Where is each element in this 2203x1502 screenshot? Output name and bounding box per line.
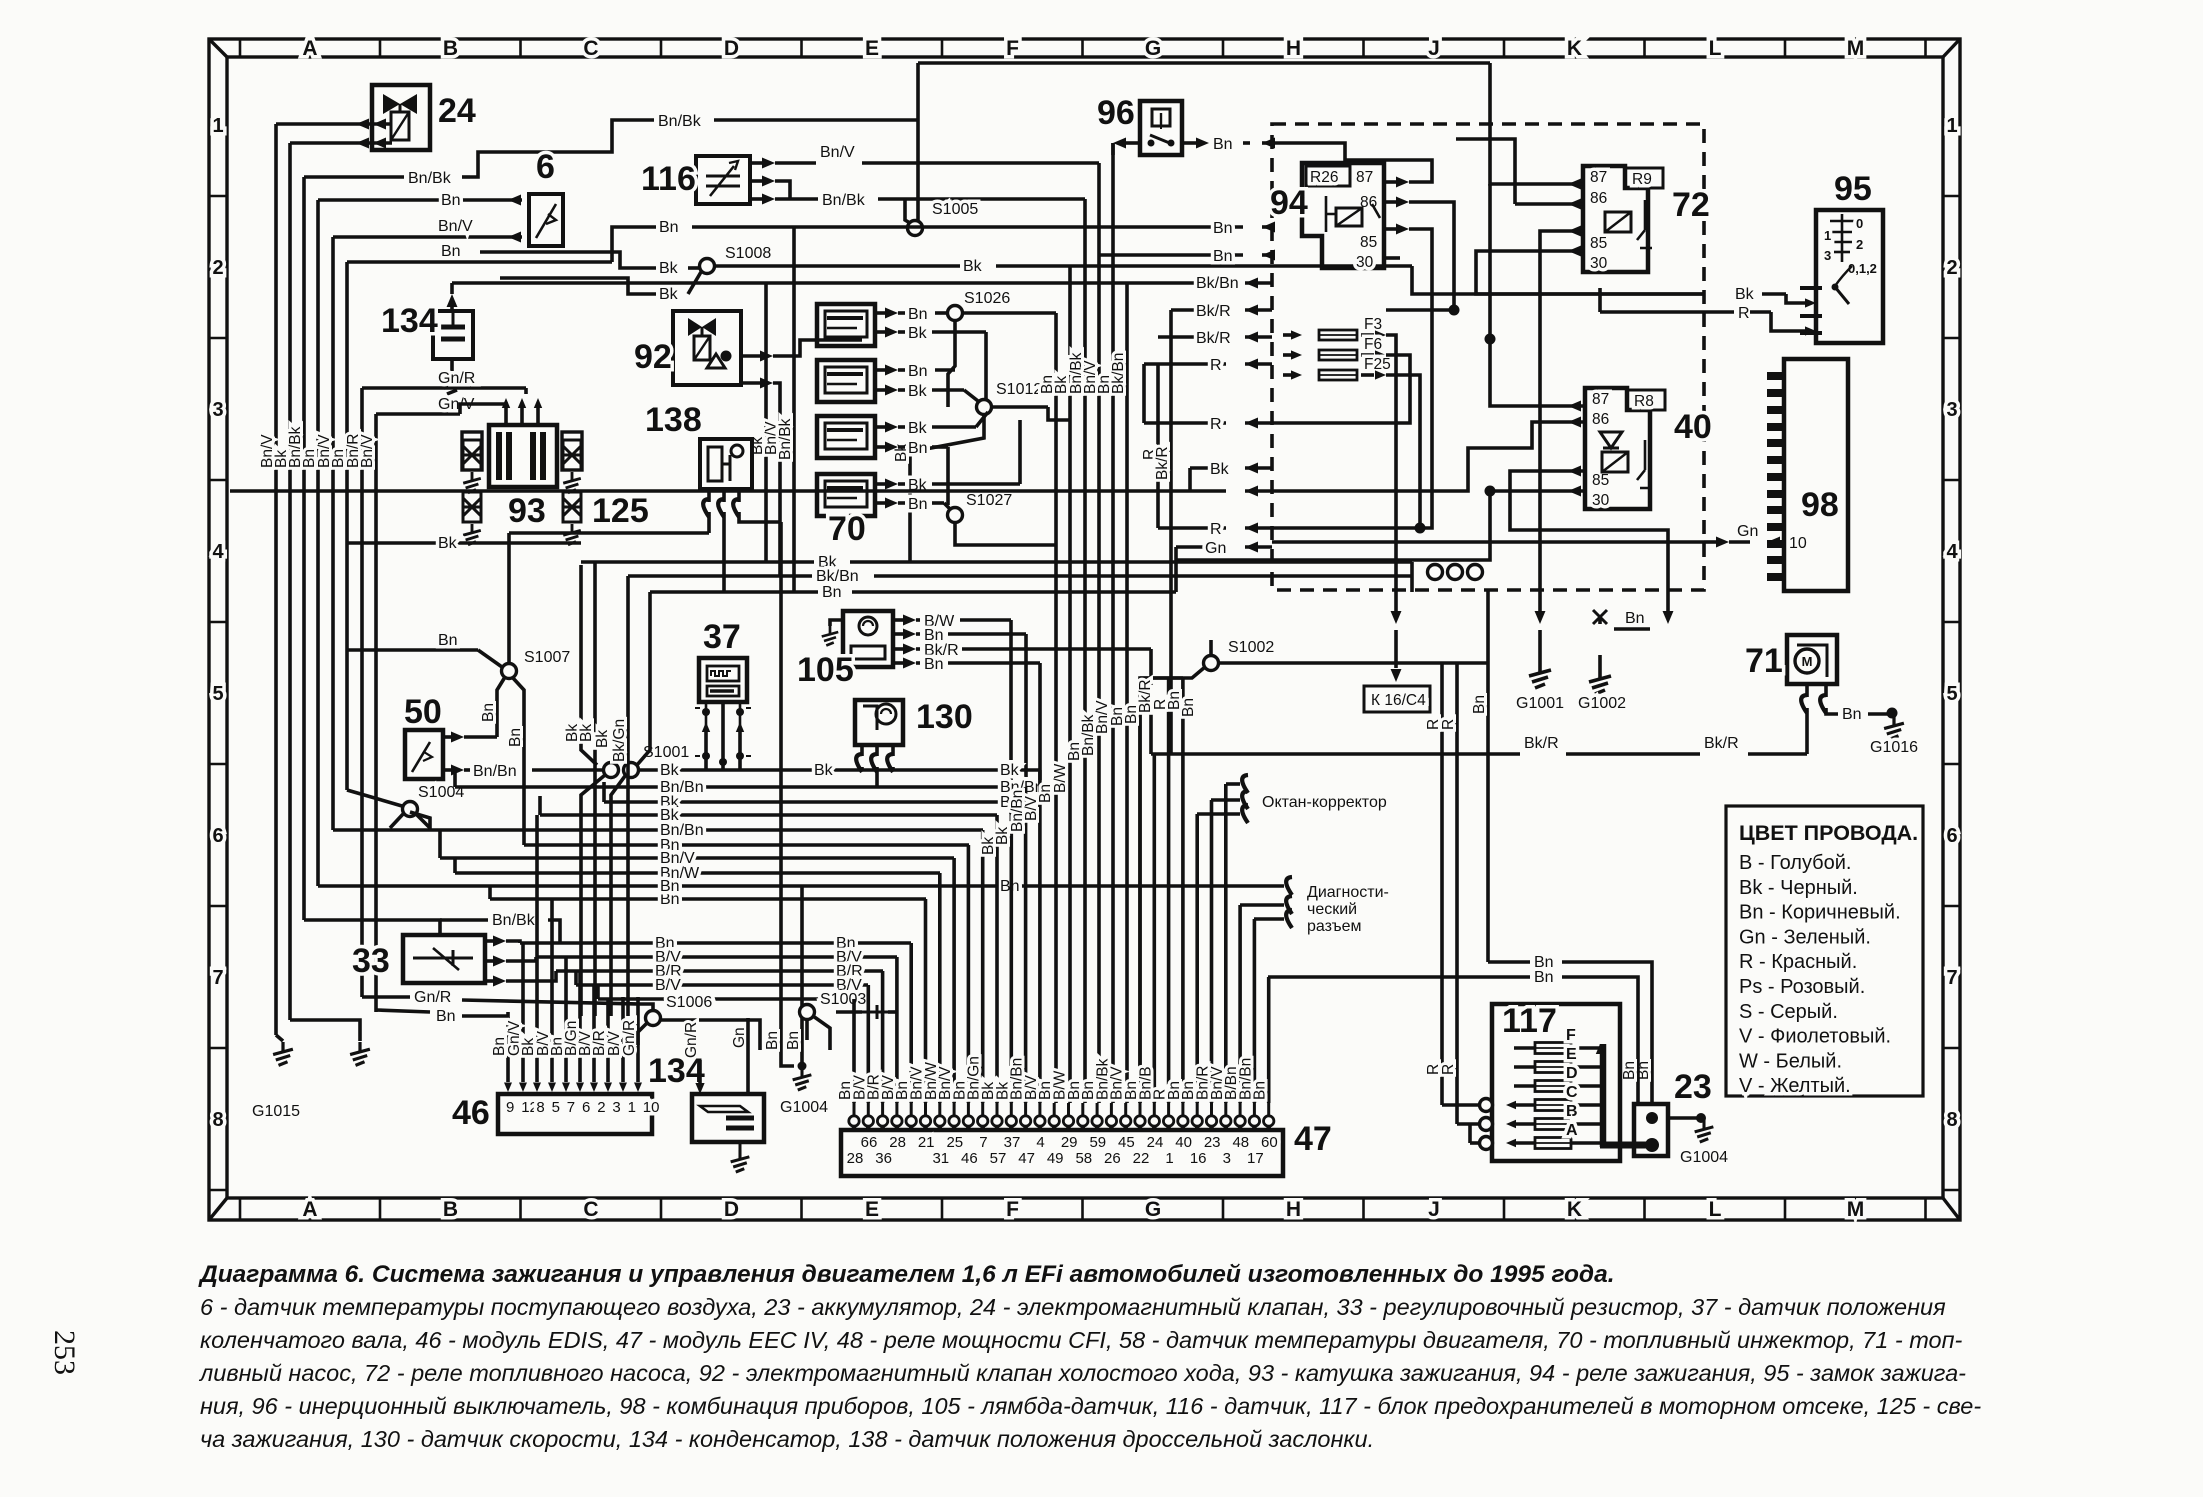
splice S1002: [1204, 656, 1219, 671]
central bus wire BnV to pin17: [1097, 163, 1101, 1103]
wire Bk below S1008: [500, 278, 656, 294]
splice S1027: [944, 503, 950, 509]
46 pin arrow heads: [504, 1083, 512, 1093]
relay box exit arrow right: [1663, 611, 1674, 624]
diagnostic connector wires: [1240, 903, 1284, 907]
svg-text:Bk - Черный.: Bk - Черный.: [1739, 877, 1858, 899]
wire Bk to splice S1008: [480, 252, 656, 268]
svg-text:85: 85: [1360, 234, 1377, 251]
svg-text:R26: R26: [1310, 169, 1338, 186]
svg-text:117: 117: [1502, 1002, 1557, 1040]
svg-text:Gn - Зеленый.: Gn - Зеленый.: [1739, 926, 1871, 948]
S1001 branch wires up: [581, 565, 597, 765]
wire Bn row into relay box: [1113, 225, 1243, 229]
svg-text:S1008: S1008: [725, 245, 771, 262]
svg-text:125: 125: [592, 492, 649, 530]
svg-text:37: 37: [1004, 1134, 1021, 1151]
svg-text:R: R: [1738, 305, 1750, 322]
svg-text:Gn/R: Gn/R: [621, 1020, 638, 1056]
ground under capacitor 134 lower: [731, 1150, 750, 1172]
svg-text:M: M: [1847, 37, 1865, 60]
wire Bn/Bk branch right: [440, 918, 488, 922]
long wire row at y491: [230, 489, 1226, 493]
svg-text:30: 30: [1590, 255, 1608, 272]
vertical wire R2 to fusebox 117: [1455, 663, 1459, 1124]
svg-text:R: R: [1210, 416, 1222, 433]
svg-text:D: D: [1566, 1065, 1578, 1082]
svg-text:Bk/Bn: Bk/Bn: [1110, 353, 1127, 394]
svg-text:Bk/R: Bk/R: [1196, 303, 1231, 320]
svg-text:6: 6: [536, 148, 555, 186]
svg-text:30: 30: [1356, 254, 1374, 271]
svg-text:ния, 96 - инерционный выключат: ния, 96 - инерционный выключатель, 98 - …: [200, 1393, 1981, 1419]
svg-text:R - Красный.: R - Красный.: [1739, 951, 1857, 973]
svg-text:45: 45: [1118, 1134, 1135, 1151]
svg-text:7: 7: [979, 1134, 987, 1151]
sensor 116 box: [696, 156, 750, 204]
svg-text:E: E: [1566, 1046, 1577, 1063]
relay box internal wiring: [1176, 63, 1704, 612]
svg-text:Bn: Bn: [1252, 1081, 1269, 1100]
svg-text:3: 3: [1946, 399, 1957, 421]
wire R row at y423: [1144, 421, 1226, 425]
thick wire fuse A to battery: [1600, 1142, 1652, 1149]
row Bn y977 from pin29 to battery: [1268, 975, 1530, 979]
svg-text:R9: R9: [1632, 171, 1652, 188]
svg-text:Bn: Bn: [1842, 706, 1862, 723]
svg-text:F25: F25: [1364, 356, 1391, 373]
splice S1004: [403, 802, 418, 817]
svg-text:F: F: [1006, 1198, 1019, 1221]
svg-text:D: D: [724, 37, 739, 60]
svg-text:3: 3: [612, 1099, 620, 1116]
svg-text:Bn: Bn: [438, 632, 458, 649]
injector no.2 wire Bk: [875, 388, 886, 392]
svg-text:Gn: Gn: [1205, 540, 1226, 557]
splice S1001: [604, 763, 619, 778]
svg-text:96: 96: [1097, 94, 1135, 132]
svg-text:Ps - Розовый.: Ps - Розовый.: [1739, 976, 1865, 998]
svg-text:23: 23: [1204, 1134, 1221, 1151]
ignition switch 95: [1816, 210, 1883, 343]
ground G1004 left: [793, 1068, 812, 1090]
wire to ground G1002: [1598, 655, 1602, 668]
long diagnostic row Bn: [318, 884, 1284, 888]
svg-text:Bn: Bn: [1213, 220, 1233, 237]
fuel injector 70 no.3: [817, 416, 875, 458]
svg-text:S1005: S1005: [932, 201, 978, 218]
svg-text:7: 7: [1946, 967, 1957, 989]
svg-text:253: 253: [48, 1330, 81, 1375]
svg-text:C: C: [583, 1198, 598, 1221]
svg-text:Bn/V: Bn/V: [438, 218, 473, 235]
svg-text:R: R: [1440, 719, 1457, 730]
idle speed valve 92: [673, 311, 741, 385]
svg-text:Bn: Bn: [785, 1031, 802, 1050]
svg-text:R: R: [1440, 1064, 1457, 1075]
svg-text:Bk: Bk: [594, 730, 611, 748]
wire Bn row y592: [650, 590, 818, 594]
svg-text:49: 49: [1047, 1150, 1064, 1167]
svg-text:R: R: [1210, 357, 1222, 374]
relay box exit arrow to K16C4: [1391, 611, 1402, 624]
pins of 138: [707, 489, 711, 502]
svg-text:Bn: Bn: [908, 440, 928, 457]
svg-text:S1012: S1012: [996, 381, 1042, 398]
wire Bk/R row into relay box (fuse F3): [1171, 308, 1226, 312]
svg-text:Bn: Bn: [908, 496, 928, 513]
svg-text:116: 116: [641, 160, 696, 198]
svg-text:36: 36: [875, 1150, 892, 1167]
diagnostic connector chevrons: [1286, 877, 1292, 895]
wire Bn from pump 71 to ground G1016: [1826, 708, 1838, 714]
svg-text:ливный насос, 72 - реле топлив: ливный насос, 72 - реле топливного насос…: [198, 1360, 1966, 1386]
ground at 105: [830, 620, 843, 626]
wire to second ground: [290, 1020, 360, 1041]
svg-text:86: 86: [1590, 190, 1607, 207]
wire down to connector K16/C4: [1394, 630, 1398, 668]
svg-text:2: 2: [1856, 237, 1863, 252]
junction dots in relay box: [1449, 305, 1460, 316]
ground next to G1015: [350, 1042, 370, 1065]
svg-text:F6: F6: [1364, 336, 1382, 353]
svg-text:Bn/Bk: Bn/Bk: [408, 170, 452, 187]
wire from 92 pin2: [741, 381, 760, 385]
svg-text:66: 66: [861, 1134, 878, 1151]
svg-text:6: 6: [212, 825, 223, 847]
svg-text:S1026: S1026: [964, 290, 1010, 307]
svg-text:F: F: [1006, 37, 1019, 60]
svg-text:93: 93: [508, 492, 546, 530]
svg-text:5: 5: [552, 1099, 560, 1116]
svg-text:F: F: [1566, 1027, 1576, 1044]
117 left connector bubbles: [1480, 1099, 1493, 1112]
svg-text:S1007: S1007: [524, 649, 570, 666]
wire from 92 pin1: [721, 351, 732, 362]
wire from bus to S1004: [347, 790, 402, 806]
vertical wire Bn right: [1486, 590, 1490, 962]
svg-text:Gn/R: Gn/R: [414, 989, 451, 1006]
wire into fuse A: [1470, 1141, 1479, 1145]
svg-text:Bk: Bk: [908, 383, 928, 400]
svg-text:10: 10: [643, 1099, 660, 1116]
injector no.3 wire Bk: [875, 425, 886, 429]
svg-text:S1003: S1003: [820, 991, 866, 1008]
svg-text:59: 59: [1089, 1134, 1106, 1151]
svg-text:5: 5: [212, 683, 223, 705]
svg-text:16: 16: [1190, 1150, 1207, 1167]
svg-text:B/W: B/W: [1052, 763, 1069, 793]
central bus wire Bn96 to pin18: [1111, 143, 1115, 1103]
capacitor 134 pin Gn: [746, 1050, 750, 1094]
wire battery to ground G1004 right: [1668, 1116, 1698, 1120]
relay 94 pins: [1384, 180, 1396, 184]
svg-text:8: 8: [1946, 1109, 1957, 1131]
svg-text:3: 3: [212, 399, 223, 421]
svg-text:1: 1: [628, 1099, 636, 1116]
wire Gn from S1003 area down: [746, 1018, 750, 1050]
splice S1006: [646, 1011, 661, 1026]
47 riser wires: [854, 678, 1269, 1103]
wire Bk/R to pump 71: [1805, 708, 1809, 754]
svg-text:B: B: [443, 37, 458, 60]
svg-text:Bn: Bn: [441, 243, 461, 260]
wire Gn row at y547: [1176, 545, 1226, 549]
svg-text:98: 98: [1801, 486, 1839, 524]
injector no.1 wire Bk: [875, 330, 886, 334]
spark plug left lower: [463, 492, 481, 522]
svg-text:W - Белый.: W - Белый.: [1739, 1050, 1842, 1072]
svg-text:Gn/R: Gn/R: [438, 370, 475, 387]
wire Bk down from S1012: [910, 414, 984, 562]
sensor 37 pin wires down: [702, 722, 710, 732]
svg-text:138: 138: [645, 401, 702, 439]
wire Bk to solenoid 24: [290, 141, 372, 145]
EEC IV module connector 47: [841, 1130, 1283, 1176]
long wire Bk/R from 105 to 71: [1151, 752, 1520, 756]
svg-text:Bk: Bk: [908, 420, 928, 437]
relay box exit X and Bn: [1593, 610, 1607, 624]
svg-text:G: G: [1145, 37, 1161, 60]
fuel pump 71: [1787, 635, 1837, 684]
injector no.3 wire Bn: [875, 445, 886, 449]
coil 93 top pins: [504, 408, 508, 425]
central bus wire Bn to pin14: [1054, 313, 1058, 1103]
svg-text:4: 4: [1946, 541, 1958, 563]
svg-text:B/V: B/V: [655, 977, 681, 994]
svg-text:46: 46: [452, 1094, 490, 1132]
resistor 33 wire pin3: [485, 979, 494, 983]
svg-text:Диаграмма 6. Система зажигания: Диаграмма 6. Система зажигания и управле…: [198, 1261, 1615, 1288]
svg-text:Bn/Bk: Bn/Bk: [658, 113, 702, 130]
fuel injector 70 no.2: [817, 360, 875, 402]
cluster 98 connector teeth: [1767, 372, 1784, 581]
splice S1007: [502, 664, 517, 679]
wire Gn/V to coil: [376, 412, 460, 416]
svg-text:R: R: [1210, 521, 1222, 538]
svg-text:G1002: G1002: [1578, 695, 1626, 712]
svg-text:48: 48: [1232, 1134, 1249, 1151]
svg-text:46: 46: [961, 1150, 978, 1167]
wire Gn from relay box to 98: [1272, 540, 1704, 544]
svg-text:2: 2: [212, 257, 223, 279]
unconnected terminals in relay box: [1428, 565, 1443, 580]
solenoid valve 24: [372, 85, 430, 150]
svg-text:5: 5: [1946, 683, 1957, 705]
svg-text:Bn/V: Bn/V: [359, 434, 376, 468]
ground G1004 right: [1695, 1120, 1714, 1142]
fuel injector 70 no.1: [817, 304, 875, 346]
svg-text:R8: R8: [1634, 393, 1654, 410]
svg-text:G1001: G1001: [1516, 695, 1564, 712]
svg-text:Bk/Gn: Bk/Gn: [611, 719, 628, 762]
svg-text:28: 28: [847, 1150, 864, 1167]
injector no.1 wire Bn to S1026: [875, 311, 886, 315]
svg-text:130: 130: [916, 698, 973, 736]
svg-text:Bk: Bk: [660, 762, 680, 779]
svg-text:ча зажигания, 130 - датчик ско: ча зажигания, 130 - датчик скорости, 134…: [200, 1426, 1374, 1452]
grid number cells left and right: [209, 196, 1960, 1190]
svg-text:87: 87: [1356, 169, 1373, 186]
svg-text:Bn: Bn: [924, 656, 944, 673]
svg-text:47: 47: [1018, 1150, 1035, 1167]
svg-text:K: K: [1567, 37, 1582, 60]
svg-text:Bn/Bk: Bn/Bk: [777, 418, 794, 460]
svg-text:D: D: [724, 1198, 739, 1221]
117 internal bus bar: [1600, 1044, 1607, 1147]
svg-text:40: 40: [1175, 1134, 1192, 1151]
relay 72 pins: [1568, 179, 1581, 190]
wires from 138 pins: [707, 512, 711, 533]
svg-text:21: 21: [918, 1134, 935, 1151]
svg-text:M: M: [1802, 654, 1813, 669]
svg-text:87: 87: [1592, 391, 1609, 408]
svg-text:Bn/Bk: Bn/Bk: [822, 192, 866, 209]
wire Bn/Bk from bus through jog to top run: [304, 175, 404, 179]
svg-text:12: 12: [521, 1099, 538, 1116]
svg-text:H: H: [1286, 1198, 1301, 1221]
svg-text:H: H: [1286, 37, 1301, 60]
svg-text:K: K: [1567, 1198, 1582, 1221]
svg-text:Bk/R: Bk/R: [1704, 735, 1739, 752]
svg-text:Bn: Bn: [822, 584, 842, 601]
central bus wire BkBn to pin19: [1125, 283, 1129, 1103]
wire Bk bend to ignition switch: [1412, 266, 1704, 294]
svg-text:G1016: G1016: [1870, 739, 1918, 756]
inertia switch 96: [1140, 101, 1182, 155]
svg-text:6: 6: [1946, 825, 1957, 847]
svg-text:0,1,2: 0,1,2: [1848, 261, 1877, 276]
46 pin riser wires: [508, 815, 638, 1082]
svg-text:22: 22: [1133, 1150, 1150, 1167]
wire Bn/Bk from 116 pin3: [750, 197, 762, 201]
central bus wire Bk to pin15: [1068, 266, 1072, 1103]
air temperature sensor 6: [529, 194, 563, 246]
svg-text:S1027: S1027: [966, 492, 1012, 509]
sensor 130 pin wires: [860, 745, 864, 756]
svg-text:7: 7: [567, 1099, 575, 1116]
svg-text:E: E: [865, 37, 879, 60]
fuel pump relay 72 outline: [1583, 166, 1648, 272]
switch 95 contact: [1835, 266, 1852, 286]
relay 40 pins: [1568, 401, 1581, 412]
svg-text:Bn: Bn: [1625, 610, 1645, 627]
svg-text:Bn: Bn: [480, 703, 497, 722]
svg-text:J: J: [1428, 1198, 1440, 1221]
ignition relay 94 outline: [1302, 163, 1384, 268]
octane corrector wires: [1197, 812, 1240, 816]
wires from S1007 down: [497, 677, 505, 712]
svg-text:G: G: [1145, 1198, 1161, 1221]
octane corrector connector chevrons: [1242, 775, 1248, 793]
EDIS module connector 46: [498, 1094, 652, 1134]
wire to capacitor 134: [450, 300, 454, 311]
svg-text:Bk/R: Bk/R: [1154, 446, 1171, 480]
svg-text:1: 1: [1165, 1150, 1173, 1167]
spark plug right upper: [563, 440, 581, 470]
wire from 116 pin2: [750, 179, 762, 183]
relay 94 internals: [1336, 208, 1362, 226]
vertical wire Bk at 766: [764, 283, 768, 562]
svg-text:28: 28: [889, 1134, 906, 1151]
vertical wire R to fusebox 117: [1440, 663, 1444, 1105]
svg-text:Gn/R: Gn/R: [683, 1022, 700, 1058]
svg-text:Bk: Bk: [814, 762, 834, 779]
svg-text:40: 40: [1674, 408, 1712, 446]
svg-text:разъем: разъем: [1307, 918, 1362, 935]
switch 95 pins: [1800, 288, 1822, 333]
svg-text:B: B: [443, 1198, 458, 1221]
svg-text:24: 24: [438, 92, 476, 130]
svg-text:58: 58: [1075, 1150, 1092, 1167]
wire BkBn row y576: [628, 574, 812, 578]
splice S1003: [800, 1005, 815, 1020]
wire Bn/V to solenoid 24: [276, 122, 372, 126]
lambda sensor 105: [843, 611, 893, 667]
svg-text:87: 87: [1590, 169, 1607, 186]
fuse F25: [1291, 370, 1302, 379]
speed sensor 130: [855, 700, 903, 745]
svg-text:2: 2: [1946, 257, 1957, 279]
row Bn y1016: [376, 1010, 430, 1012]
svg-text:Bn: Bn: [908, 363, 928, 380]
svg-text:C: C: [1566, 1084, 1578, 1101]
wire Bn row above S1008: [347, 260, 612, 264]
svg-text:2: 2: [597, 1099, 605, 1116]
svg-text:1: 1: [1824, 228, 1831, 243]
svg-text:105: 105: [797, 651, 854, 689]
svg-text:24: 24: [1147, 1134, 1164, 1151]
svg-text:Bn: Bn: [1213, 248, 1233, 265]
pump 71 pins: [1805, 684, 1809, 697]
throttle position sensor 138: [700, 439, 752, 489]
svg-text:M: M: [1847, 1198, 1865, 1221]
wire Bk/R row 2 (fuse F6): [1158, 335, 1226, 339]
svg-text:коленчатого вала, 46 - модуль: коленчатого вала, 46 - модуль EDIS, 47 -…: [200, 1327, 1963, 1353]
wire Bn to sensor 6: [318, 198, 522, 202]
svg-text:7: 7: [212, 967, 223, 989]
wire Bk/Bn row into relay box: [452, 281, 1226, 285]
sensor 50 wire Bn/Bn: [443, 768, 452, 772]
svg-text:Bk: Bk: [963, 258, 983, 275]
CFI power relay 40 outline: [1585, 388, 1650, 509]
svg-text:J: J: [1428, 37, 1440, 60]
relay box exit arrow to G1001: [1535, 611, 1546, 624]
svg-text:6: 6: [582, 1099, 590, 1116]
svg-text:G1015: G1015: [252, 1103, 300, 1120]
fuses A-F in 117: [1535, 1043, 1571, 1054]
svg-text:0: 0: [1856, 216, 1863, 231]
ground G1015: [273, 1042, 293, 1065]
svg-text:94: 94: [1270, 184, 1308, 222]
svg-text:23: 23: [1674, 1068, 1712, 1106]
svg-text:3: 3: [1824, 248, 1831, 263]
injector no.2 wire Bn: [875, 368, 886, 372]
wire Bn row y533: [509, 531, 709, 535]
adjusting resistor 33: [403, 935, 485, 983]
fuse F3: [1291, 330, 1302, 339]
svg-text:92: 92: [634, 338, 672, 376]
wire to ground G1015: [276, 1035, 283, 1041]
fuse box 117: [1492, 1004, 1620, 1161]
svg-text:Bk/Bn: Bk/Bn: [816, 568, 859, 585]
wire Bn from 105 to pin12: [893, 632, 904, 636]
wire Bn2 from 105 to pin13: [893, 661, 904, 665]
svg-text:Bn: Bn: [441, 192, 461, 209]
svg-text:8: 8: [536, 1099, 544, 1116]
svg-text:57: 57: [990, 1150, 1007, 1167]
svg-text:Диагности-: Диагности-: [1307, 884, 1389, 901]
